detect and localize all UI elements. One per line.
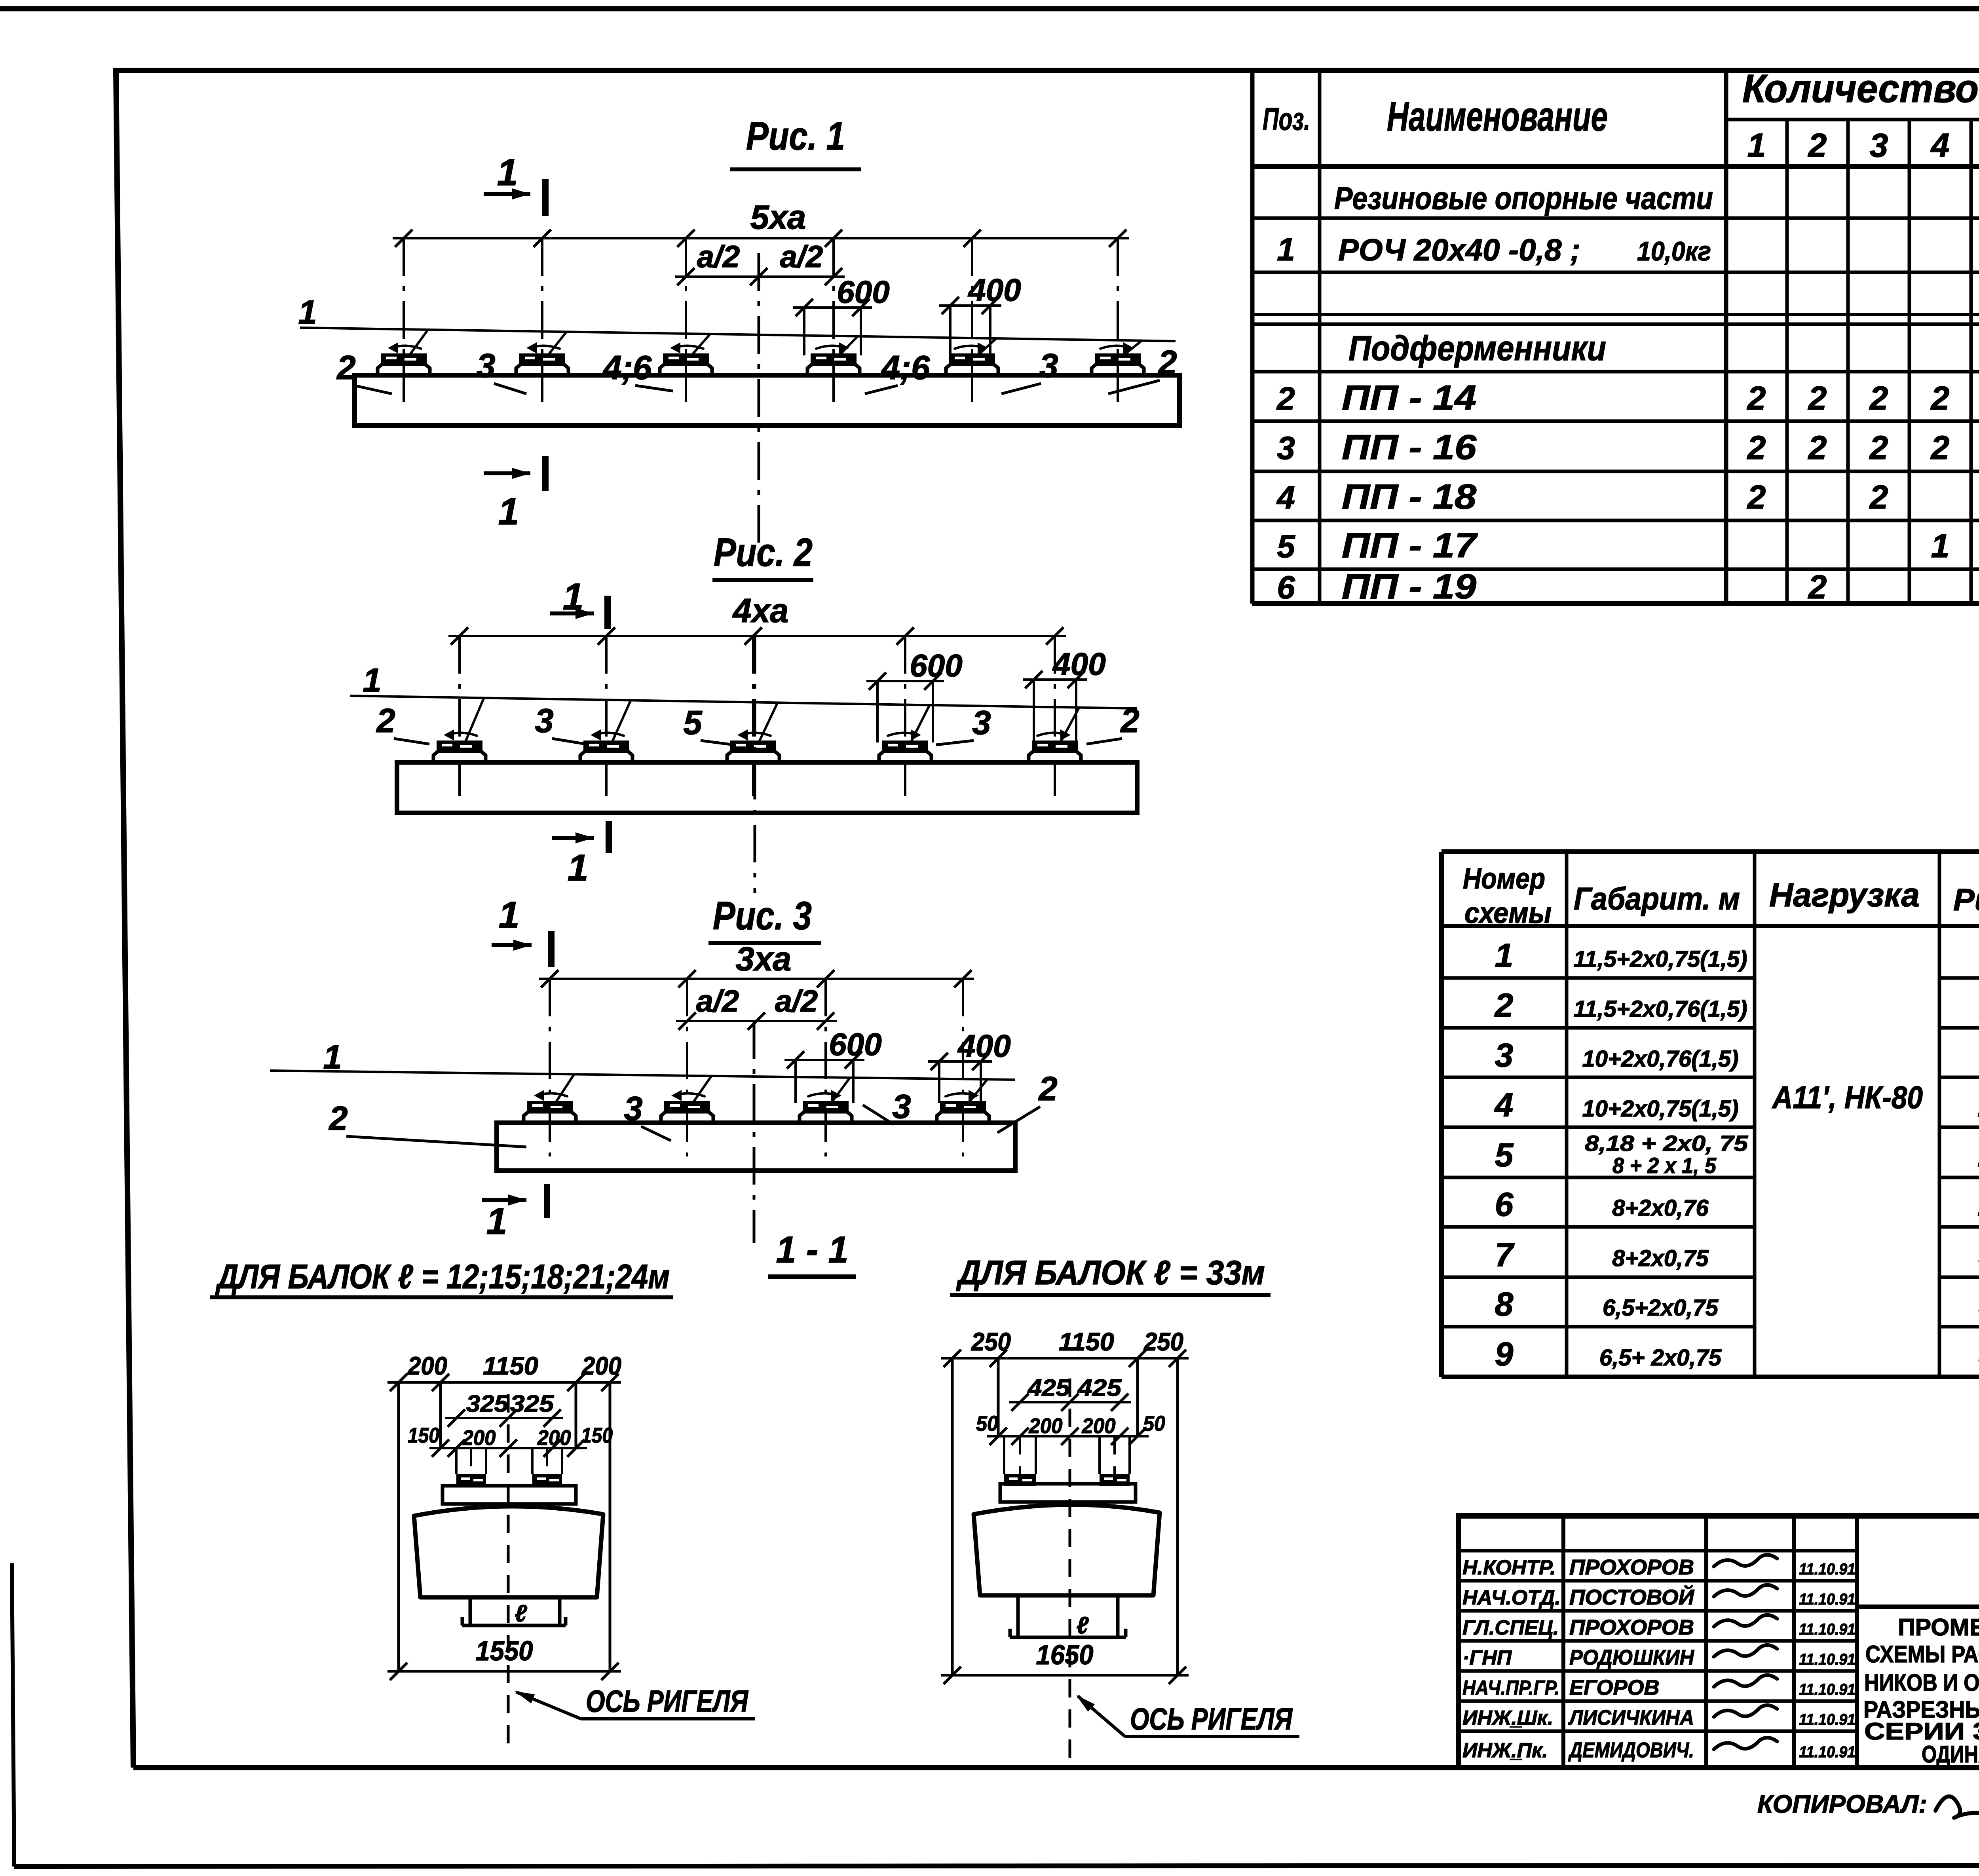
- svg-text:11,5+2х0,75(1,5): 11,5+2х0,75(1,5): [1573, 946, 1747, 972]
- svg-text:325: 325: [466, 1390, 509, 1417]
- svg-text:2: 2: [1808, 429, 1827, 466]
- svg-text:4ха: 4ха: [732, 592, 789, 630]
- svg-text:Габарит. м: Габарит. м: [1574, 881, 1740, 916]
- svg-text:3: 3: [892, 1088, 911, 1126]
- svg-text:2: 2: [1157, 344, 1177, 382]
- svg-text:250: 250: [1143, 1327, 1183, 1356]
- svg-text:10+2х0,76(1,5): 10+2х0,76(1,5): [1582, 1046, 1738, 1072]
- svg-text:2: 2: [1494, 987, 1514, 1024]
- svg-text:6,5+2х0,75: 6,5+2х0,75: [1603, 1295, 1719, 1321]
- svg-text:8,18 + 2х0, 75: 8,18 + 2х0, 75: [1585, 1131, 1748, 1156]
- svg-text:ПП - 17: ПП - 17: [1342, 526, 1478, 565]
- svg-text:a/2: a/2: [780, 239, 823, 274]
- svg-text:ПРОМЕЖУТОЧНАЯ ОПОРА.: ПРОМЕЖУТОЧНАЯ ОПОРА.: [1898, 1614, 1979, 1641]
- svg-text:5ха: 5ха: [750, 199, 806, 236]
- svg-text:11.10.91: 11.10.91: [1799, 1561, 1856, 1578]
- svg-text:1: 1: [1495, 937, 1514, 974]
- svg-text:Рис. 2: Рис. 2: [714, 530, 813, 575]
- svg-text:1 - 1: 1 - 1: [776, 1229, 849, 1271]
- svg-text:ОСЬ РИГЕЛЯ: ОСЬ РИГЕЛЯ: [1130, 1701, 1293, 1736]
- svg-text:2: 2: [1276, 381, 1295, 417]
- svg-text:Подферменники: Подферменники: [1348, 328, 1606, 368]
- svg-text:11.10.91: 11.10.91: [1799, 1711, 1856, 1728]
- svg-text:3: 3: [624, 1090, 642, 1128]
- svg-text:8 + 2 х 1, 5: 8 + 2 х 1, 5: [1612, 1153, 1717, 1178]
- svg-text:6: 6: [1277, 570, 1295, 606]
- svg-text:3: 3: [535, 702, 553, 740]
- svg-text:Нагрузка: Нагрузка: [1769, 876, 1920, 913]
- svg-text:ИНЖ.̲Шк.: ИНЖ.̲Шк.: [1462, 1707, 1553, 1730]
- svg-text:400: 400: [957, 1028, 1010, 1063]
- svg-text:2: 2: [1747, 478, 1766, 516]
- svg-text:200: 200: [1082, 1414, 1116, 1438]
- svg-text:a/2: a/2: [696, 984, 739, 1018]
- svg-text:1150: 1150: [1059, 1327, 1114, 1356]
- svg-text:3ха: 3ха: [736, 940, 792, 978]
- svg-text:ОДИНАРНЫЕ ГАБАРИТЫ.: ОДИНАРНЫЕ ГАБАРИТЫ.: [1922, 1741, 1979, 1768]
- svg-text:Поз.: Поз.: [1263, 101, 1310, 137]
- svg-text:5: 5: [683, 704, 703, 742]
- svg-text:1: 1: [497, 152, 518, 194]
- svg-text:ℓ: ℓ: [515, 1600, 528, 1627]
- svg-text:ПП - 16: ПП - 16: [1342, 427, 1477, 467]
- svg-text:3: 3: [1495, 1037, 1514, 1074]
- svg-text:425: 425: [1077, 1375, 1122, 1401]
- svg-text:2: 2: [328, 1100, 348, 1137]
- svg-text:схемы: схемы: [1464, 896, 1552, 929]
- svg-text:250: 250: [971, 1327, 1011, 1356]
- svg-text:2: 2: [1747, 429, 1766, 466]
- svg-text:325: 325: [510, 1390, 555, 1417]
- svg-text:10,0кг: 10,0кг: [1637, 236, 1711, 266]
- svg-text:7: 7: [1495, 1236, 1515, 1273]
- svg-text:600: 600: [837, 274, 889, 310]
- svg-text:2: 2: [1808, 127, 1827, 164]
- svg-text:ДЕМИДОВИЧ.: ДЕМИДОВИЧ.: [1568, 1738, 1694, 1762]
- svg-text:2: 2: [1869, 429, 1888, 466]
- svg-text:6,5+ 2х0,75: 6,5+ 2х0,75: [1599, 1345, 1722, 1371]
- svg-text:3: 3: [1870, 127, 1888, 164]
- svg-text:ДЛЯ БАЛОК ℓ = 12;15;18;21;24: ДЛЯ БАЛОК ℓ = 12;15;18;21;24м: [215, 1258, 670, 1296]
- svg-text:2: 2: [1120, 702, 1139, 740]
- svg-text:РОЧ 20х40 -0,8 ;: РОЧ 20х40 -0,8 ;: [1338, 232, 1580, 267]
- svg-text:1: 1: [1931, 527, 1950, 564]
- svg-text:11.10.91: 11.10.91: [1799, 1681, 1856, 1698]
- svg-text:3: 3: [1039, 347, 1058, 385]
- svg-text:ДЛЯ БАЛОК ℓ = 33м: ДЛЯ БАЛОК ℓ = 33м: [955, 1254, 1265, 1292]
- svg-text:1: 1: [498, 491, 519, 533]
- svg-text:Резиновые опорные части: Резиновые опорные части: [1334, 180, 1713, 216]
- svg-text:1650: 1650: [1036, 1639, 1094, 1670]
- svg-text:200: 200: [407, 1352, 447, 1380]
- svg-text:Количество: Количество: [1742, 66, 1979, 111]
- svg-text:КОПИРОВАЛ:: КОПИРОВАЛ:: [1757, 1790, 1927, 1818]
- svg-text:600: 600: [829, 1027, 881, 1062]
- svg-text:Номер: Номер: [1463, 862, 1545, 895]
- svg-text:·ГНП: ·ГНП: [1462, 1646, 1512, 1669]
- svg-text:4;6: 4;6: [881, 349, 931, 387]
- svg-text:Рис. 1: Рис. 1: [746, 114, 845, 158]
- svg-text:50: 50: [976, 1412, 998, 1435]
- svg-text:8+2х0,75: 8+2х0,75: [1612, 1246, 1709, 1271]
- svg-text:ЛИСИЧКИНА: ЛИСИЧКИНА: [1568, 1706, 1694, 1730]
- svg-text:5: 5: [1277, 528, 1295, 564]
- svg-text:ОСЬ РИГЕЛЯ: ОСЬ РИГЕЛЯ: [586, 1684, 749, 1718]
- svg-text:11.10.91: 11.10.91: [1799, 1621, 1856, 1638]
- svg-text:1: 1: [486, 1200, 507, 1242]
- svg-text:ЕГОРОВ: ЕГОРОВ: [1569, 1676, 1659, 1699]
- svg-text:3: 3: [477, 347, 495, 385]
- svg-text:3: 3: [1277, 430, 1295, 466]
- svg-text:a/2: a/2: [775, 984, 818, 1018]
- svg-text:8+2х0,76: 8+2х0,76: [1612, 1195, 1709, 1221]
- svg-text:Рис. 3: Рис. 3: [713, 894, 812, 938]
- svg-text:3: 3: [972, 704, 991, 742]
- svg-text:8: 8: [1495, 1285, 1514, 1323]
- svg-text:А11', НК-80: А11', НК-80: [1772, 1080, 1923, 1115]
- svg-text:СЕРИИ 3.503.1-81.: СЕРИИ 3.503.1-81.: [1864, 1718, 1979, 1745]
- svg-text:200: 200: [581, 1352, 621, 1380]
- svg-text:6: 6: [1495, 1186, 1514, 1223]
- svg-text:ПРОХОРОВ: ПРОХОРОВ: [1569, 1555, 1694, 1579]
- svg-text:1: 1: [298, 294, 317, 331]
- svg-text:10+2х0,75(1,5): 10+2х0,75(1,5): [1582, 1096, 1738, 1122]
- svg-text:ПОСТОВОЙ: ПОСТОВОЙ: [1569, 1585, 1694, 1609]
- svg-text:2: 2: [1869, 478, 1888, 516]
- svg-text:НАЧ.ОТД.: НАЧ.ОТД.: [1462, 1586, 1561, 1609]
- svg-text:150: 150: [408, 1424, 439, 1447]
- svg-text:a/2: a/2: [697, 239, 740, 274]
- svg-text:425: 425: [1027, 1375, 1071, 1401]
- svg-text:50: 50: [1143, 1412, 1165, 1435]
- svg-text:4;6: 4;6: [602, 349, 652, 387]
- svg-text:ИНЖ.̲Пк.: ИНЖ.̲Пк.: [1462, 1739, 1548, 1762]
- svg-text:1: 1: [568, 847, 589, 889]
- svg-text:ГЛ.СПЕЦ.: ГЛ.СПЕЦ.: [1462, 1616, 1559, 1639]
- svg-text:11.10.91: 11.10.91: [1799, 1651, 1856, 1668]
- svg-text:1150: 1150: [483, 1352, 538, 1380]
- svg-text:2: 2: [1808, 380, 1827, 417]
- svg-text:1: 1: [1277, 232, 1295, 268]
- svg-text:2: 2: [1869, 380, 1888, 417]
- svg-text:4: 4: [1276, 480, 1295, 516]
- svg-text:Наименование: Наименование: [1387, 93, 1608, 140]
- svg-text:200: 200: [1029, 1414, 1063, 1438]
- svg-text:600: 600: [910, 648, 962, 683]
- svg-text:НИКОВ И ОПОРНЫХ ЧАСТЕЙ ПОД: НИКОВ И ОПОРНЫХ ЧАСТЕЙ ПОД: [1864, 1669, 1979, 1696]
- svg-text:ℓ: ℓ: [1077, 1612, 1089, 1639]
- svg-text:2: 2: [336, 349, 355, 387]
- svg-text:11,5+2х0,76(1,5): 11,5+2х0,76(1,5): [1573, 996, 1747, 1022]
- svg-text:4: 4: [1494, 1086, 1514, 1124]
- svg-text:2: 2: [1930, 380, 1950, 417]
- svg-text:Рис.: Рис.: [1953, 882, 1979, 917]
- svg-text:ПРОХОРОВ: ПРОХОРОВ: [1569, 1616, 1694, 1639]
- svg-text:200: 200: [537, 1426, 571, 1450]
- svg-text:1: 1: [1747, 127, 1766, 164]
- svg-text:1: 1: [499, 894, 520, 936]
- svg-text:ПП - 18: ПП - 18: [1342, 477, 1476, 516]
- svg-text:400: 400: [967, 272, 1021, 308]
- svg-text:1: 1: [363, 662, 381, 699]
- svg-text:150: 150: [581, 1424, 613, 1447]
- svg-text:2: 2: [1808, 568, 1827, 606]
- svg-text:11.10.91: 11.10.91: [1799, 1591, 1856, 1608]
- svg-text:2: 2: [1930, 429, 1950, 466]
- svg-text:11.10.91: 11.10.91: [1799, 1743, 1856, 1761]
- svg-text:Н.КОНТР.: Н.КОНТР.: [1462, 1556, 1556, 1579]
- svg-text:РОДЮШКИН: РОДЮШКИН: [1569, 1646, 1694, 1669]
- svg-text:2: 2: [376, 702, 395, 740]
- svg-text:9: 9: [1495, 1335, 1514, 1373]
- svg-text:2: 2: [1747, 380, 1766, 417]
- svg-text:НАЧ.ПР.ГР.: НАЧ.ПР.ГР.: [1462, 1677, 1559, 1699]
- svg-text:200: 200: [462, 1426, 496, 1450]
- svg-text:400: 400: [1052, 646, 1105, 682]
- svg-text:СХЕМЫ РАСПОЛОЖЕНИЯ ПОДФЕРМЕН-: СХЕМЫ РАСПОЛОЖЕНИЯ ПОДФЕРМЕН-: [1865, 1641, 1979, 1667]
- svg-text:5: 5: [1495, 1136, 1514, 1173]
- svg-text:ПП - 14: ПП - 14: [1342, 378, 1476, 417]
- svg-text:ПП - 19: ПП - 19: [1342, 567, 1476, 606]
- svg-text:1550: 1550: [476, 1635, 533, 1666]
- svg-text:2: 2: [1038, 1070, 1057, 1108]
- svg-text:4: 4: [1930, 127, 1950, 164]
